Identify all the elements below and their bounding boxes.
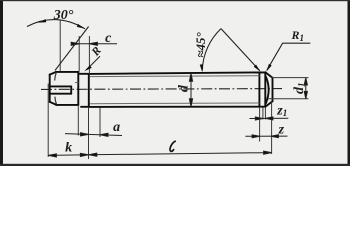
svg-text:R: R	[89, 45, 104, 60]
svg-text:R1: R1	[291, 28, 305, 43]
svg-text:30°: 30°	[53, 8, 74, 23]
svg-text:≈45°: ≈45°	[193, 31, 208, 57]
svg-text:z: z	[278, 123, 285, 138]
svg-text:d1: d1	[292, 82, 307, 94]
svg-text:d: d	[176, 84, 191, 92]
svg-text:z1: z1	[276, 103, 287, 118]
svg-text:k: k	[65, 141, 72, 156]
svg-text:a: a	[113, 120, 120, 135]
svg-text:c: c	[105, 31, 112, 46]
